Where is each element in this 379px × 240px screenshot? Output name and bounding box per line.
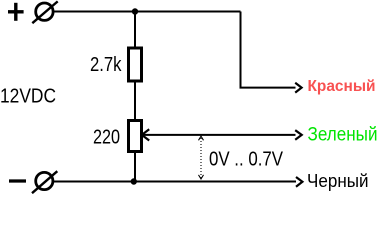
wire wiper to Зеленый (142, 134, 296, 136)
arrowhead to Красный (295, 83, 301, 93)
wire resistor branch vertical (134, 12, 136, 182)
measurement dotted double arrow 0V..0.7V (199, 136, 204, 179)
resistor R1 2.7k (129, 48, 142, 81)
potentiometer wiper arrowhead (142, 129, 149, 140)
potentiometer R2 220 body (129, 121, 142, 152)
svg-text:Черный: Черный (307, 170, 369, 191)
wire red branch (241, 12, 296, 88)
node junction bottom (131, 178, 137, 184)
wire top positive rail (53, 11, 241, 13)
svg-text:Зеленый: Зеленый (308, 125, 378, 146)
svg-text:12VDC: 12VDC (0, 86, 56, 108)
svg-text:2.7k: 2.7k (90, 54, 122, 76)
arrowhead to Черный (296, 177, 302, 187)
terminal plus sign (positive supply) (8, 3, 24, 21)
terminal pad Ø negative (32, 171, 57, 193)
svg-text:0V .. 0.7V: 0V .. 0.7V (209, 148, 284, 170)
wire bottom negative rail (53, 181, 296, 183)
node junction top (132, 8, 138, 14)
arrowhead to Зеленый (295, 130, 302, 140)
terminal pad Ø positive (32, 1, 57, 23)
terminal minus sign (negative supply) (9, 179, 26, 182)
svg-text:Красный: Красный (308, 78, 376, 95)
svg-text:220: 220 (93, 127, 120, 149)
